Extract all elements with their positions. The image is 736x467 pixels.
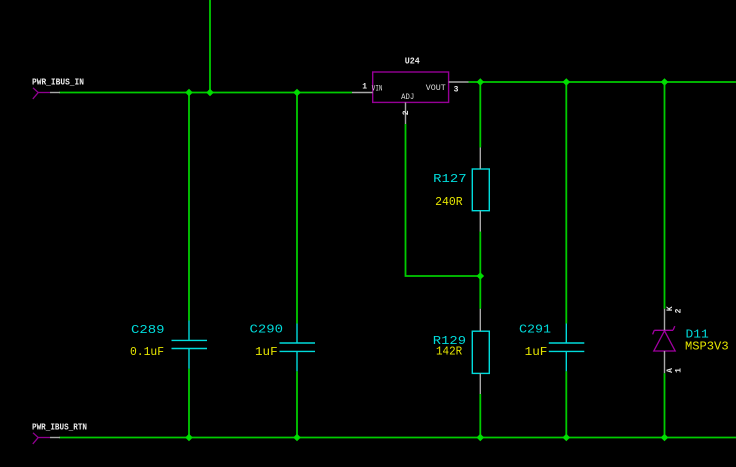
wire C289 top xyxy=(188,93,190,321)
svg-text:2: 2 xyxy=(675,308,684,313)
svg-text:142R: 142R xyxy=(436,345,462,359)
pin stub R127 top xyxy=(479,147,481,169)
svg-text:C289: C289 xyxy=(131,323,165,337)
junction at R129 bottom xyxy=(477,434,485,442)
pin stub U24 VIN xyxy=(352,92,373,94)
wire top vertical into rail xyxy=(209,0,211,93)
pin stub R129 bottom xyxy=(479,373,481,394)
capacitor C290 symbol xyxy=(280,324,316,372)
wire D11 bottom xyxy=(664,373,666,437)
junction at ADJ node xyxy=(477,272,485,280)
pin stub U24 VOUT xyxy=(449,81,469,83)
resistor R127 body xyxy=(472,169,489,211)
wire bottom rail PWR_IBUS_RTN xyxy=(59,437,736,439)
svg-text:1: 1 xyxy=(675,368,684,373)
junction at top vertical xyxy=(206,89,214,97)
wire D11 top xyxy=(664,82,666,309)
svg-text:1uF: 1uF xyxy=(525,345,548,359)
off-page connector PWR_IBUS_RTN xyxy=(33,433,50,444)
svg-text:U24: U24 xyxy=(405,56,421,66)
svg-text:MSP3V3: MSP3V3 xyxy=(685,339,729,353)
pin stub D11 cathode xyxy=(664,309,666,331)
junction at C290 bottom xyxy=(293,434,301,442)
pin stub U24 ADJ xyxy=(405,102,407,124)
svg-text:3: 3 xyxy=(454,85,459,94)
svg-text:2: 2 xyxy=(402,110,411,115)
wire C291 bottom xyxy=(565,371,567,437)
svg-text:C290: C290 xyxy=(250,323,284,337)
zener diode D11 symbol xyxy=(653,326,676,351)
capacitor C289 symbol xyxy=(172,321,208,369)
junction at D11 bottom xyxy=(661,434,669,442)
pin stub R127 bottom xyxy=(479,211,481,232)
svg-text:ADJ: ADJ xyxy=(401,93,414,102)
junction at C291 bottom xyxy=(563,434,571,442)
wire VOUT rail xyxy=(469,81,736,83)
junction at C291 top xyxy=(563,78,571,86)
wire PWR_IBUS_IN horizontal rail xyxy=(59,92,352,94)
wire R129 bottom xyxy=(479,394,481,438)
junction at R127 top xyxy=(477,78,485,86)
wire C289 bottom xyxy=(188,369,190,438)
pin stub PWR_IBUS_RTN xyxy=(50,437,60,439)
regulator U24 body xyxy=(373,72,449,102)
junction at C289 bottom xyxy=(185,434,193,442)
resistor R129 body xyxy=(472,331,489,373)
capacitor C291 symbol xyxy=(549,324,585,372)
junction at C289 top rail xyxy=(185,89,193,97)
svg-text:0.1uF: 0.1uF xyxy=(130,345,164,359)
svg-text:PWR_IBUS_IN: PWR_IBUS_IN xyxy=(32,77,84,87)
svg-text:1uF: 1uF xyxy=(255,345,278,359)
svg-text:PWR_IBUS_RTN: PWR_IBUS_RTN xyxy=(32,422,87,432)
svg-text:1: 1 xyxy=(362,82,367,91)
wire ADJ feedback xyxy=(406,124,481,276)
svg-text:R127: R127 xyxy=(433,172,467,186)
pin stub PWR_IBUS_IN xyxy=(50,92,60,94)
wire C290 top xyxy=(296,93,298,324)
wire R127 to ADJ node xyxy=(479,232,481,276)
pin stub R129 top xyxy=(479,309,481,332)
wire ADJ node to R129 xyxy=(479,276,481,309)
wire VOUT to R127 xyxy=(479,82,481,147)
svg-text:VIN: VIN xyxy=(372,84,383,93)
svg-text:C291: C291 xyxy=(519,323,551,337)
svg-text:240R: 240R xyxy=(435,195,463,209)
off-page connector PWR_IBUS_IN xyxy=(33,88,50,99)
wire C290 bottom xyxy=(296,371,298,437)
junction at C290 top rail xyxy=(293,89,301,97)
junction at D11 top xyxy=(661,78,669,86)
svg-text:VOUT: VOUT xyxy=(426,84,446,93)
pin stub D11 anode xyxy=(664,351,666,373)
wire C291 top xyxy=(565,82,567,324)
